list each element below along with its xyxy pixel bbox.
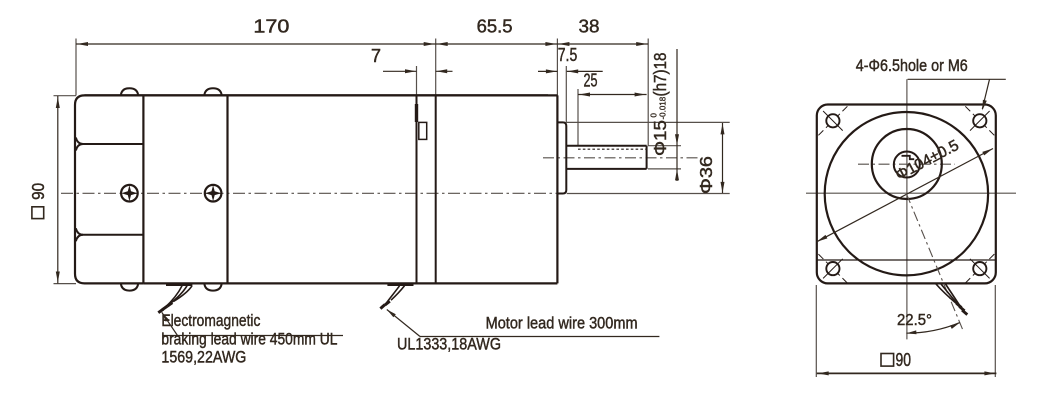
svg-text:7: 7 xyxy=(371,46,381,66)
svg-text:170: 170 xyxy=(253,17,289,37)
svg-text:1569,22AWG: 1569,22AWG xyxy=(161,348,246,367)
svg-text:Electromagnetic: Electromagnetic xyxy=(161,311,260,330)
svg-text:90: 90 xyxy=(28,183,48,200)
svg-text:65.5: 65.5 xyxy=(477,17,513,37)
svg-text:UL1333,18AWG: UL1333,18AWG xyxy=(397,335,501,354)
svg-text:38: 38 xyxy=(579,17,600,37)
svg-text:(h7)18: (h7)18 xyxy=(650,53,670,97)
svg-text:7.5: 7.5 xyxy=(558,45,578,65)
svg-text:braking lead wire 450mm UL: braking lead wire 450mm UL xyxy=(161,329,337,348)
svg-text:25: 25 xyxy=(584,71,598,91)
svg-text:Φ36: Φ36 xyxy=(696,156,716,194)
svg-text:-0.018: -0.018 xyxy=(659,96,668,119)
svg-text:90: 90 xyxy=(896,350,912,370)
svg-text:Φ15: Φ15 xyxy=(650,120,670,156)
svg-text:0: 0 xyxy=(650,113,659,118)
svg-text:22.5°: 22.5° xyxy=(897,312,932,329)
svg-text:4-Φ6.5hole or M6: 4-Φ6.5hole or M6 xyxy=(856,57,968,75)
svg-text:Motor lead wire 300mm: Motor lead wire 300mm xyxy=(486,314,638,333)
